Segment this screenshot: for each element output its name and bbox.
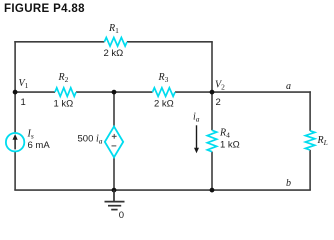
- dependent source minus sign: [112, 145, 117, 147]
- node center junction dot: [112, 90, 117, 95]
- wire V2 to node a horizontal: [212, 91, 311, 93]
- figure title: [4, 3, 85, 15]
- wire V2 branch upper: [211, 42, 213, 131]
- svg-text:ia: ia: [193, 112, 200, 124]
- resistor RL: [305, 131, 314, 150]
- wire left vertical lower: [14, 151, 16, 190]
- wire center branch upper: [113, 92, 115, 127]
- wire top-left horizontal: [14, 41, 104, 43]
- wire left vertical middle: [14, 92, 16, 133]
- wire V2 branch lower: [211, 152, 213, 191]
- svg-text:2 kΩ: 2 kΩ: [104, 48, 124, 59]
- wire right vertical upper: [309, 91, 311, 131]
- wire middle horizontal R3 to V2: [175, 91, 212, 93]
- svg-text:R2: R2: [58, 72, 69, 84]
- svg-text:0: 0: [119, 210, 124, 221]
- node V2 junction dot: [210, 90, 215, 95]
- svg-text:RL: RL: [317, 135, 328, 147]
- svg-text:Is: Is: [27, 129, 34, 141]
- svg-text:2: 2: [216, 97, 221, 108]
- svg-text:R3: R3: [158, 72, 169, 84]
- wire right vertical lower: [309, 150, 311, 190]
- dependent source plus sign: [112, 134, 117, 139]
- wire middle horizontal R2 to R3: [76, 91, 153, 93]
- resistor R4: [207, 130, 216, 151]
- wire middle horizontal V1 to R2: [15, 91, 55, 93]
- resistor R1: [104, 38, 127, 47]
- resistor R2: [55, 88, 76, 97]
- svg-text:V2: V2: [215, 80, 225, 92]
- svg-text:1: 1: [21, 97, 26, 108]
- svg-text:R1: R1: [108, 23, 119, 35]
- bottom center junction dot: [112, 188, 117, 193]
- svg-text:R4: R4: [219, 128, 230, 140]
- svg-text:2 kΩ: 2 kΩ: [154, 99, 174, 110]
- svg-text:6 mA: 6 mA: [28, 140, 51, 151]
- svg-text:1 kΩ: 1 kΩ: [220, 140, 240, 151]
- svg-text:a: a: [286, 81, 291, 92]
- current source Is circle: [6, 133, 24, 151]
- svg-text:500 ia: 500 ia: [78, 134, 103, 146]
- current arrow ia: [194, 125, 199, 153]
- resistor R3: [153, 88, 175, 97]
- wire top-right horizontal: [127, 41, 213, 43]
- wire center branch lower: [113, 157, 115, 190]
- svg-text:V1: V1: [19, 78, 29, 90]
- current source Is arrow: [13, 134, 18, 149]
- svg-text:1 kΩ: 1 kΩ: [54, 99, 74, 110]
- wire bottom horizontal: [14, 189, 311, 191]
- svg-text:b: b: [286, 178, 291, 189]
- node V1 junction dot: [13, 90, 18, 95]
- dependent source diamond: [105, 127, 123, 158]
- ground: [105, 190, 125, 210]
- bottom V2-branch junction dot: [210, 188, 215, 193]
- wire left vertical upper: [14, 41, 16, 92]
